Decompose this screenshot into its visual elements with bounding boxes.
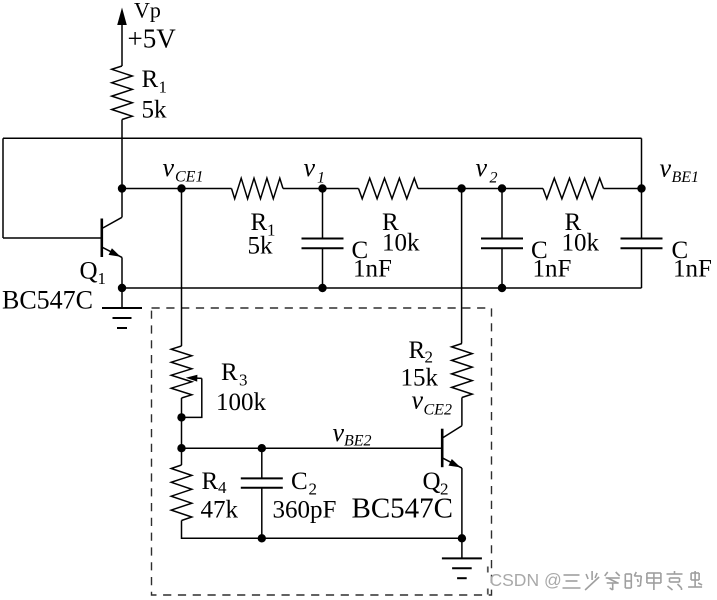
svg-text:3: 3 <box>239 371 248 390</box>
node: R3 wiper junction <box>177 413 185 421</box>
resistor R (first 10k) <box>359 178 419 199</box>
resistor R2 (15k) <box>452 344 473 398</box>
wire collector node to vCE1 <box>122 188 232 190</box>
svg-text:Q: Q <box>423 468 441 495</box>
label 1nF (v2 cap) <box>533 256 572 283</box>
wire feedback riser left <box>2 138 4 238</box>
node: C2 top junction <box>258 444 266 452</box>
svg-text:R: R <box>202 468 219 495</box>
ground (Q2 emitter) <box>442 538 482 578</box>
wire v1 section to v2 <box>418 188 543 190</box>
svg-text:v: v <box>476 153 488 182</box>
wire R4 bottom to rail <box>182 521 262 539</box>
label 1nF (vBE1 cap) <box>673 256 712 283</box>
svg-text:CSDN @: CSDN @ <box>490 570 562 590</box>
transistor Q1 collector <box>103 189 122 229</box>
transistor Q1 emitter with arrow <box>103 248 122 288</box>
label R (first 10k) <box>382 209 399 236</box>
node v2 <box>498 184 506 192</box>
node: Q1 collector junction <box>118 184 126 192</box>
node: Q2 emitter on bottom wire <box>458 534 466 542</box>
node: v1 cap to bottom rail <box>318 284 326 292</box>
resistor R1 (top, 5k) <box>112 66 133 120</box>
svg-text:100k: 100k <box>216 389 267 416</box>
label v1 <box>304 153 326 187</box>
wire to vBE1 <box>604 188 642 190</box>
wire R1 to collector node <box>121 120 123 189</box>
node: v2 cap to bottom rail <box>498 284 506 292</box>
wire R4 top <box>181 448 183 465</box>
svg-text:1: 1 <box>159 78 168 97</box>
svg-text:10k: 10k <box>562 230 600 257</box>
label C (v2 cap) <box>531 237 548 264</box>
ground (Q1 emitter) <box>102 288 142 328</box>
resistor R3 (100k potentiometer) <box>171 346 192 398</box>
label v2 <box>476 153 498 187</box>
svg-text:C: C <box>291 468 308 495</box>
wire feedback riser right (vBE1 to top rail) <box>641 138 643 188</box>
svg-text:1: 1 <box>317 170 325 187</box>
node: Q1 emitter on bottom rail <box>118 284 126 292</box>
label R1 (series) <box>251 209 276 240</box>
wire Q1 base <box>3 237 102 239</box>
svg-text:R: R <box>409 337 426 364</box>
node v1 <box>318 184 326 192</box>
wire R1 to v1 <box>283 188 359 190</box>
label 5k (R1 top) <box>142 97 168 124</box>
svg-text:CE2: CE2 <box>424 402 452 419</box>
wire top rail <box>3 137 642 139</box>
svg-text:2: 2 <box>440 480 449 499</box>
label R (second 10k) <box>565 209 582 236</box>
svg-text:2: 2 <box>490 170 498 187</box>
svg-text:v: v <box>412 385 424 414</box>
label C (v1 cap) <box>352 237 369 264</box>
capacitor C2 (360pF) <box>241 448 283 538</box>
svg-text:R: R <box>221 359 238 386</box>
capacitor C (at v2, 1nF) <box>481 189 523 289</box>
watermark CSDN <box>488 567 702 595</box>
node: C2 bottom junction <box>258 534 266 542</box>
svg-text:+5V: +5V <box>128 24 177 54</box>
svg-text:47k: 47k <box>201 497 239 524</box>
label 360pF <box>273 497 337 524</box>
svg-text:v: v <box>163 153 175 182</box>
svg-text:1nF: 1nF <box>353 256 392 283</box>
svg-text:Vp: Vp <box>134 0 161 23</box>
svg-text:v: v <box>660 154 672 183</box>
label vBE1 <box>660 154 700 187</box>
label R3 <box>221 359 248 390</box>
svg-text:BE2: BE2 <box>344 433 372 450</box>
node: junction to R2 <box>457 184 465 192</box>
label BC547C (Q1) <box>2 286 93 315</box>
wire bottom rail <box>122 287 642 289</box>
label 1nF (v1 cap) <box>353 256 392 283</box>
wire vCE1 down to R3 <box>181 189 183 347</box>
label R1 <box>142 66 168 97</box>
capacitor C (at v1, 1nF) <box>302 189 344 289</box>
label 10k (first) <box>382 230 420 257</box>
transistor Q1 base bar <box>101 219 104 258</box>
potentiometer R3 wiper arrow <box>182 375 202 418</box>
svg-text:R: R <box>142 66 159 93</box>
svg-text:BC547C: BC547C <box>2 286 93 315</box>
label Q1 <box>80 258 107 289</box>
label Vp <box>134 0 161 23</box>
wire junction down to R2 <box>461 189 463 344</box>
svg-text:10k: 10k <box>382 230 420 257</box>
transistor Q2 emitter with arrow <box>443 458 462 538</box>
wire C2 to Q2 emitter (bottom) <box>262 537 462 539</box>
label vBE2 <box>333 418 372 450</box>
wire R3 to vBE2 node <box>181 398 183 448</box>
resistor R4 (47k) <box>171 465 192 521</box>
node: R3/R4 junction (vBE2 left) <box>177 444 185 452</box>
label Q2 <box>423 468 449 499</box>
label 10k (second) <box>562 230 600 257</box>
node vBE1 <box>637 184 645 192</box>
label 47k <box>201 497 239 524</box>
node vCE1 <box>177 184 185 192</box>
svg-text:5k: 5k <box>142 97 168 124</box>
svg-text:4: 4 <box>218 478 227 497</box>
resistor R (second 10k) <box>543 178 604 199</box>
svg-text:360pF: 360pF <box>273 497 337 524</box>
power supply Vp arrow <box>117 8 127 67</box>
label R2 <box>409 337 434 367</box>
capacitor C (at vBE1, 1nF) <box>621 189 663 289</box>
label 100k <box>216 389 267 416</box>
label BC547C (Q2) <box>352 493 454 525</box>
svg-text:5k: 5k <box>248 233 274 260</box>
wire vBE2 (to Q2 base) <box>182 447 443 449</box>
label 15k <box>401 365 439 392</box>
svg-text:CE1: CE1 <box>175 169 203 186</box>
svg-text:v: v <box>304 153 316 182</box>
label +5V <box>128 24 177 54</box>
label vCE2 <box>412 385 452 418</box>
transistor Q2 collector <box>443 398 462 438</box>
transistor Q2 base bar <box>441 429 444 468</box>
svg-text:1nF: 1nF <box>533 256 572 283</box>
dashed box (oscillator sub-circuit) <box>152 308 492 595</box>
label 5k (series) <box>248 233 274 260</box>
svg-text:BE1: BE1 <box>672 169 700 186</box>
label C (vBE1 cap) <box>672 237 689 264</box>
svg-text:v: v <box>333 418 345 447</box>
resistor R1 (series, 5k) <box>232 178 284 199</box>
svg-text:BC547C: BC547C <box>352 493 454 525</box>
svg-text:1nF: 1nF <box>673 256 712 283</box>
svg-text:Q: Q <box>80 258 98 285</box>
label C2 <box>291 468 317 499</box>
label vCE1 <box>163 153 204 186</box>
label R4 <box>202 468 228 497</box>
svg-text:1: 1 <box>98 269 107 288</box>
